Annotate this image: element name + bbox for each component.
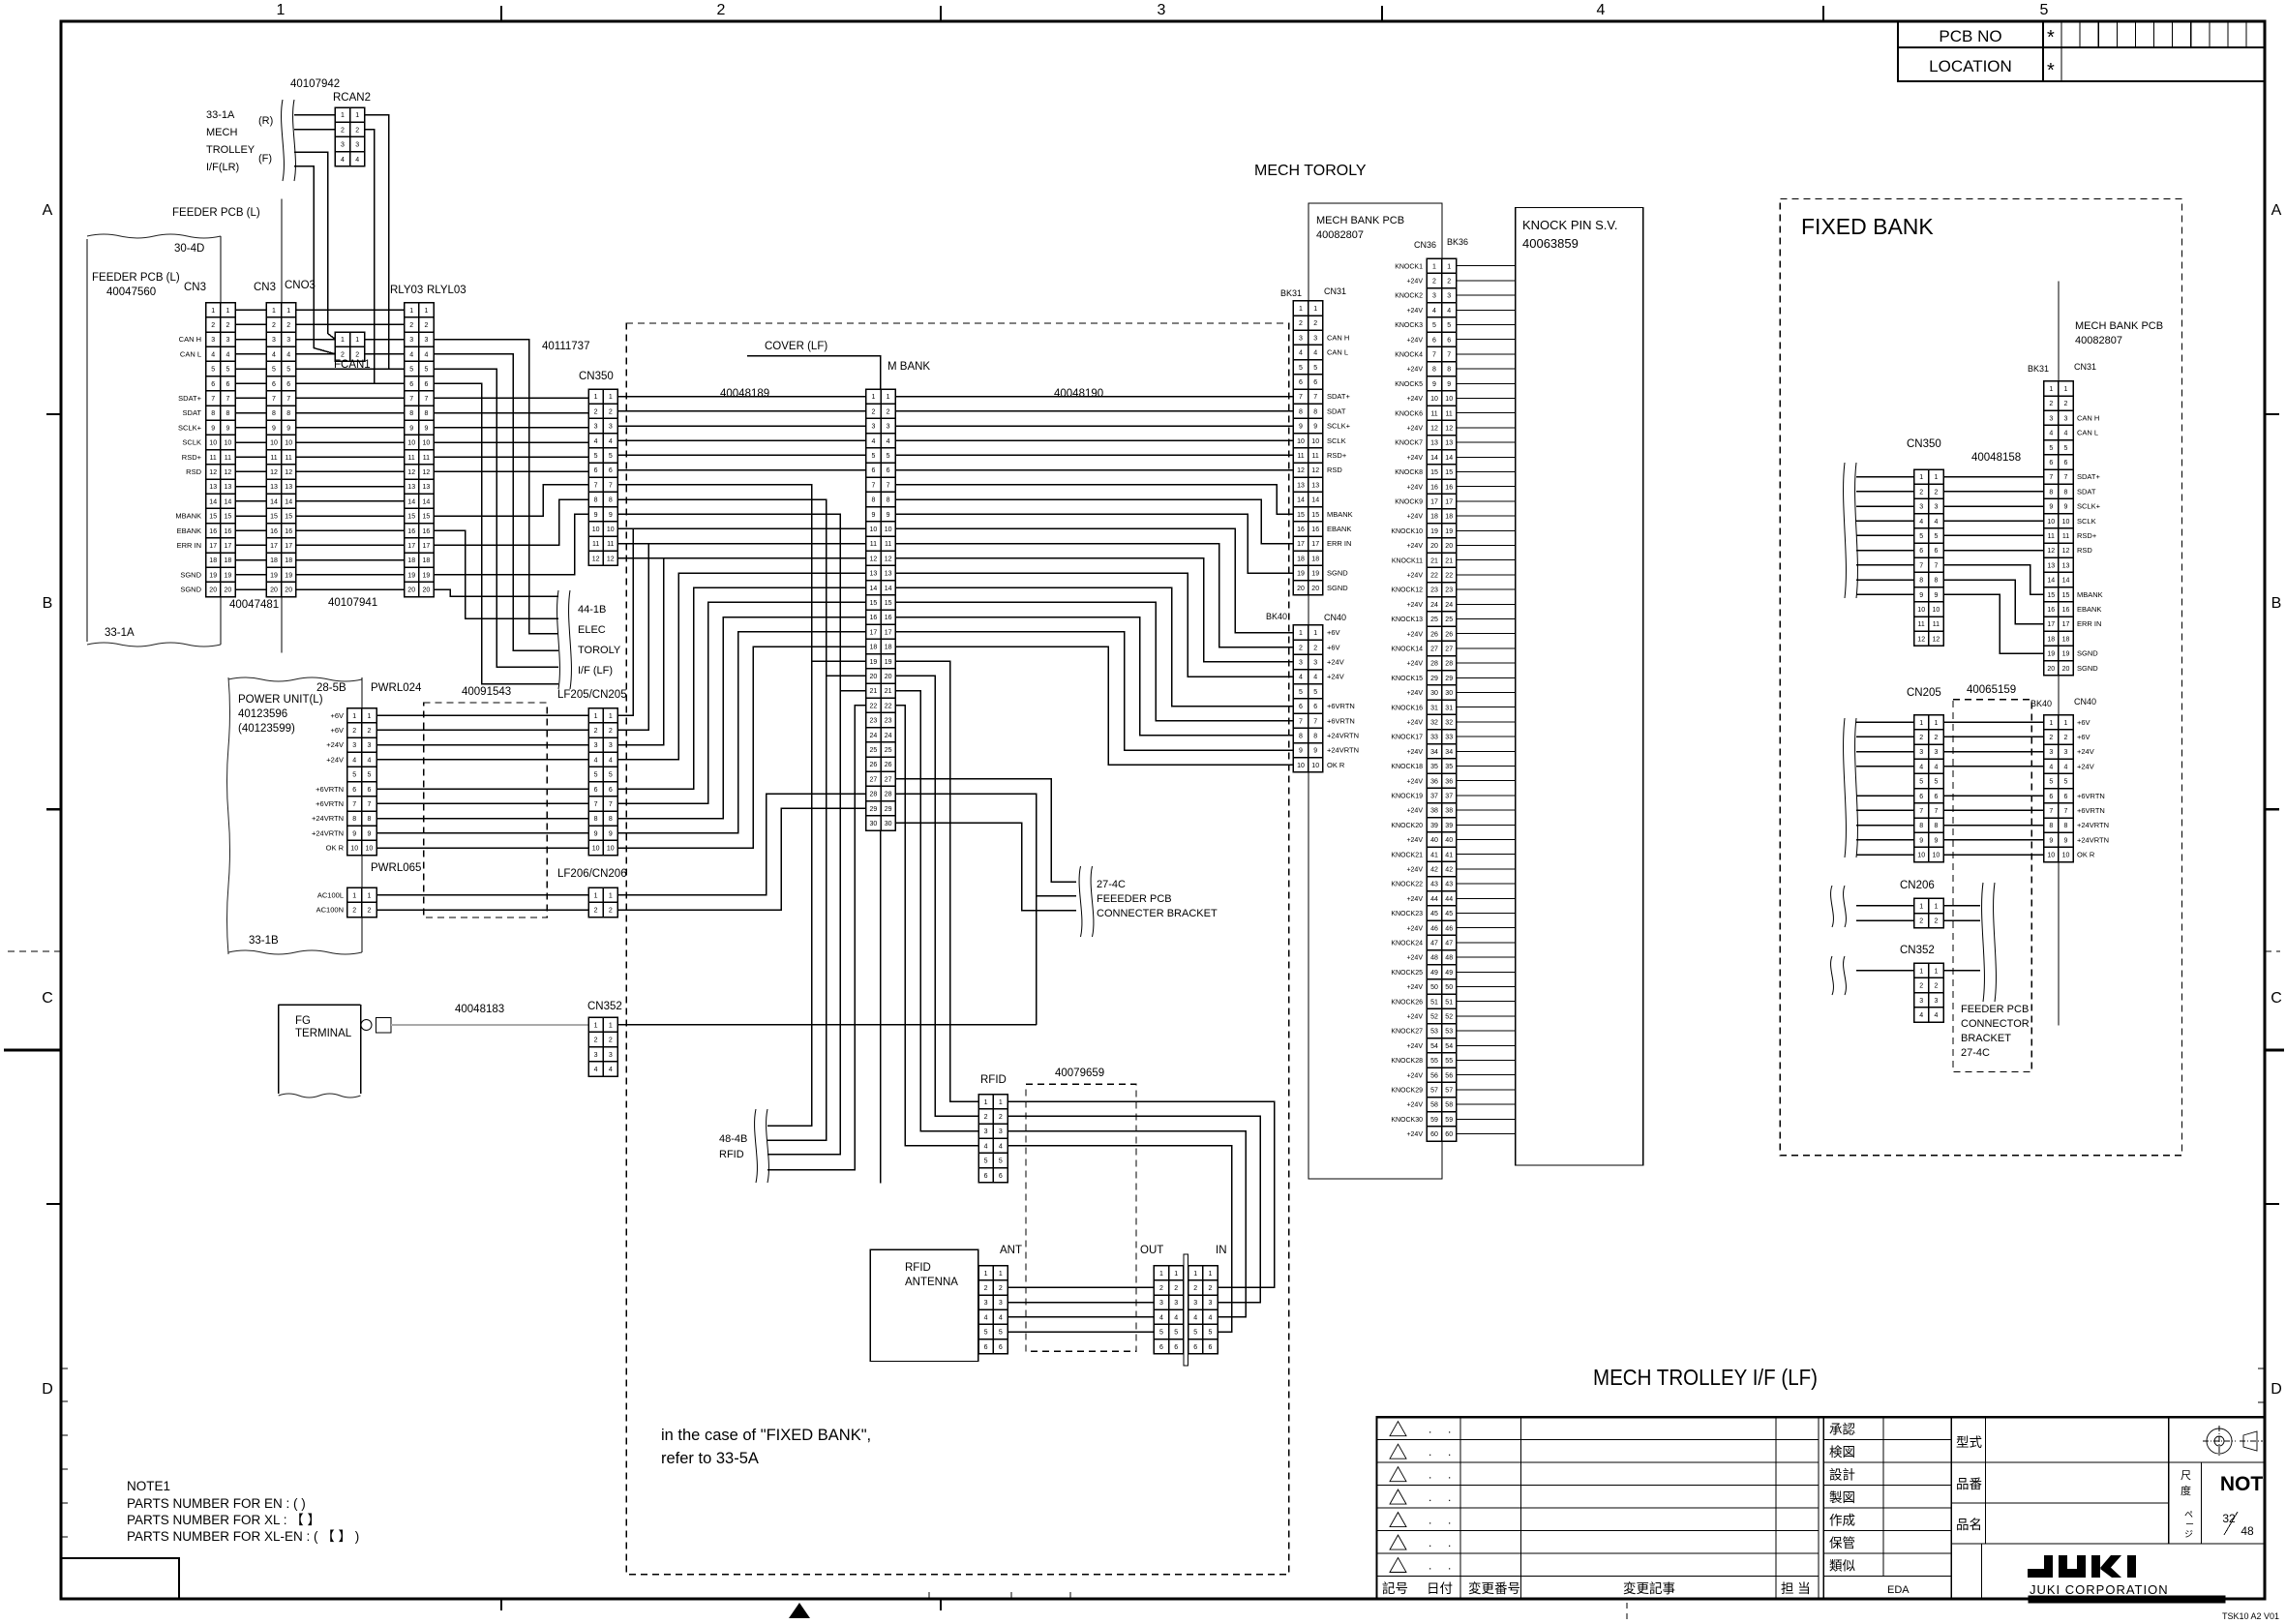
svg-text:RSD+: RSD+ [182, 453, 202, 462]
svg-text:45: 45 [1430, 911, 1438, 917]
svg-text:12: 12 [285, 469, 292, 476]
svg-text:BK40: BK40 [2030, 699, 2052, 708]
svg-text:33-1A: 33-1A [105, 627, 135, 639]
svg-text:14: 14 [285, 498, 292, 505]
svg-text:39: 39 [1445, 823, 1453, 829]
svg-text:ANT: ANT [1000, 1245, 1022, 1256]
svg-text:3: 3 [1934, 749, 1938, 756]
svg-text:+24V: +24V [1406, 514, 1423, 521]
svg-text:24: 24 [1445, 602, 1453, 609]
svg-text:8: 8 [1432, 367, 1436, 374]
svg-text:TOROLY: TOROLY [578, 645, 621, 656]
svg-text:8: 8 [211, 410, 215, 417]
wires BK36 to knock pin sv [1457, 265, 1516, 267]
svg-text:16: 16 [270, 528, 278, 535]
svg-text:KNOCK10: KNOCK10 [1391, 528, 1423, 535]
svg-text:6: 6 [1313, 704, 1317, 710]
svg-text:40063859: 40063859 [1522, 236, 1579, 251]
svg-text:14: 14 [270, 498, 278, 505]
svg-text:25: 25 [870, 747, 878, 754]
svg-text:6: 6 [367, 787, 371, 794]
svg-text:CN350: CN350 [1907, 438, 1941, 450]
svg-text:50: 50 [1430, 984, 1438, 991]
svg-text:7: 7 [352, 801, 356, 808]
svg-text:54: 54 [1430, 1043, 1438, 1050]
svg-text:1: 1 [352, 713, 356, 720]
svg-text:5: 5 [887, 453, 890, 460]
svg-text:9: 9 [1919, 837, 1923, 844]
svg-text:15: 15 [1297, 512, 1305, 519]
svg-text:20: 20 [2062, 666, 2070, 673]
wire M BANK 8 to BK31 17 [895, 499, 1293, 544]
svg-text:1: 1 [887, 394, 890, 401]
svg-text:4: 4 [1208, 1314, 1212, 1321]
wire fixed CN350 8 to BK31 17 [1943, 580, 2044, 624]
svg-text:1: 1 [226, 308, 229, 315]
svg-text:20: 20 [2047, 666, 2055, 673]
svg-text:40047481: 40047481 [229, 599, 279, 611]
svg-text:12: 12 [870, 556, 878, 562]
svg-text:33: 33 [1445, 735, 1453, 741]
svg-text:7: 7 [609, 801, 613, 808]
svg-text:7: 7 [211, 396, 215, 403]
svg-text:17: 17 [870, 629, 878, 636]
svg-text:5: 5 [424, 367, 428, 374]
svg-text:18: 18 [285, 557, 292, 564]
svg-text:10: 10 [607, 526, 615, 533]
svg-text:19: 19 [885, 659, 892, 666]
svg-text:23: 23 [870, 718, 878, 725]
svg-text:4: 4 [871, 438, 875, 445]
svg-text:6: 6 [1919, 548, 1923, 555]
svg-text:3: 3 [2049, 749, 2053, 756]
svg-text:SDAT+: SDAT+ [178, 394, 201, 403]
svg-text:4: 4 [1174, 1314, 1178, 1321]
svg-text:KNOCK18: KNOCK18 [1391, 764, 1423, 770]
svg-text:2: 2 [1919, 489, 1923, 496]
svg-text:48: 48 [1445, 955, 1453, 962]
svg-text:14: 14 [225, 498, 232, 505]
svg-text:1: 1 [272, 308, 276, 315]
svg-text:13: 13 [870, 571, 878, 578]
svg-text:2: 2 [984, 1285, 988, 1292]
svg-text:OUT: OUT [1140, 1245, 1163, 1256]
svg-text:+24VRTN: +24VRTN [1327, 732, 1359, 740]
svg-text:6: 6 [1447, 337, 1451, 344]
svg-text:9: 9 [409, 425, 413, 432]
svg-text:FEEDER PCB (L): FEEDER PCB (L) [92, 272, 180, 284]
cable break marks fixed CN350 [1844, 463, 1847, 598]
svg-text:30: 30 [1430, 690, 1438, 697]
svg-text:3: 3 [999, 1300, 1003, 1307]
svg-text:3: 3 [609, 1052, 613, 1059]
svg-text:SCLK: SCLK [2077, 517, 2096, 526]
svg-text:KNOCK16: KNOCK16 [1391, 705, 1423, 711]
svg-text:8: 8 [594, 497, 598, 504]
svg-text:12: 12 [607, 556, 615, 562]
svg-text:3: 3 [871, 424, 875, 431]
svg-text:+6V: +6V [2077, 718, 2090, 727]
svg-text:30-4D: 30-4D [174, 243, 204, 255]
svg-text:20: 20 [270, 587, 278, 594]
svg-text:4: 4 [424, 351, 428, 358]
svg-text:.: . [1429, 1423, 1431, 1436]
svg-text:28: 28 [1430, 661, 1438, 668]
svg-text:19: 19 [1311, 571, 1319, 578]
svg-text:POWER UNIT(L): POWER UNIT(L) [238, 694, 323, 706]
svg-text:40107942: 40107942 [290, 78, 340, 90]
svg-text:+24V: +24V [1406, 1072, 1423, 1079]
svg-text:60: 60 [1445, 1131, 1453, 1138]
svg-text:48: 48 [1430, 955, 1438, 962]
svg-text:15: 15 [2047, 592, 2055, 599]
svg-text:CN352: CN352 [1900, 945, 1935, 956]
svg-text:2: 2 [609, 1038, 613, 1044]
wires fixed CN350 left stubs [1856, 476, 1914, 478]
svg-text:SDAT: SDAT [2077, 487, 2096, 496]
svg-text:+24V: +24V [1406, 573, 1423, 580]
svg-text:SCLK: SCLK [182, 438, 201, 447]
svg-text:.: . [1448, 1536, 1451, 1549]
svg-text:33-1B: 33-1B [249, 935, 279, 947]
svg-text:12: 12 [2062, 548, 2070, 555]
svg-text:+24V: +24V [1406, 984, 1423, 991]
PCB NO / LOCATION table [1898, 21, 2265, 81]
svg-text:16: 16 [407, 528, 415, 535]
svg-text:1: 1 [341, 112, 345, 119]
svg-text:3: 3 [1299, 660, 1303, 667]
svg-text:11: 11 [1430, 410, 1437, 417]
svg-text:28: 28 [885, 792, 892, 798]
fg lug symbol [361, 1020, 372, 1031]
svg-text:17: 17 [1445, 499, 1453, 506]
svg-text:+6V: +6V [330, 726, 344, 735]
svg-text:11: 11 [1312, 453, 1319, 460]
svg-text:1: 1 [594, 713, 598, 720]
wire CN352 riser continuation [1036, 896, 1038, 1025]
svg-text:+24VRTN: +24VRTN [312, 828, 344, 837]
fixed mech bank pcb line [2058, 281, 2060, 1025]
svg-text:14: 14 [1297, 497, 1305, 504]
wire F cable to FCAN1 pin1 [294, 152, 335, 339]
svg-text:10: 10 [1933, 607, 1940, 614]
wires M BANK 27,28,30 to feeder pcb bracket 27-4C [895, 779, 1076, 882]
dashed box COVER (LF) [626, 323, 1288, 1575]
svg-text:12: 12 [209, 469, 217, 476]
svg-text:CN205: CN205 [1907, 687, 1941, 699]
svg-text:13: 13 [407, 484, 415, 491]
svg-text:9: 9 [1934, 592, 1938, 599]
svg-text:5: 5 [1919, 779, 1923, 786]
svg-text:2: 2 [1919, 918, 1923, 925]
svg-text:1: 1 [367, 713, 371, 720]
connector RLY03/RLYL03 [405, 303, 434, 597]
svg-text:14: 14 [2047, 578, 2055, 585]
connector CN3/CNO3 pair [266, 303, 295, 597]
svg-text:13: 13 [885, 571, 892, 578]
svg-text:57: 57 [1445, 1088, 1453, 1095]
svg-text:57: 57 [1430, 1088, 1438, 1095]
connector PWRL065 [347, 887, 376, 917]
svg-text:(F): (F) [258, 153, 272, 165]
svg-text:11: 11 [270, 455, 277, 462]
svg-text:12: 12 [1917, 636, 1925, 643]
svg-text:7: 7 [409, 396, 413, 403]
svg-text:4: 4 [887, 438, 890, 445]
svg-text:+24VRTN: +24VRTN [2077, 835, 2109, 844]
svg-text:2: 2 [1919, 735, 1923, 741]
svg-text:KNOCK28: KNOCK28 [1391, 1058, 1423, 1065]
svg-text:19: 19 [423, 572, 431, 579]
svg-text:1: 1 [1432, 263, 1436, 270]
svg-text:5: 5 [2040, 2, 2049, 18]
svg-text:3: 3 [1934, 504, 1938, 511]
svg-text:18: 18 [2047, 636, 2055, 643]
svg-text:NOT: NOT [2220, 1473, 2264, 1495]
svg-text:CAN L: CAN L [1327, 348, 1348, 357]
svg-text:10: 10 [1917, 853, 1925, 859]
svg-text:1: 1 [1208, 1271, 1212, 1278]
svg-text:42: 42 [1445, 867, 1453, 874]
svg-text:19: 19 [270, 572, 278, 579]
svg-text:3: 3 [594, 424, 598, 431]
svg-text:TROLLEY: TROLLEY [206, 144, 256, 156]
svg-text:2: 2 [2049, 735, 2053, 741]
svg-text:1: 1 [1934, 474, 1938, 481]
svg-text:9: 9 [609, 830, 613, 837]
svg-text:8: 8 [1299, 408, 1303, 415]
svg-text:4: 4 [1313, 350, 1317, 357]
svg-text:3: 3 [1208, 1300, 1212, 1307]
svg-text:+24V: +24V [1406, 543, 1423, 550]
svg-text:4: 4 [226, 351, 229, 358]
svg-text:9: 9 [594, 512, 598, 519]
svg-text:+24V: +24V [326, 755, 344, 764]
svg-text:37: 37 [1445, 794, 1453, 800]
svg-text:3: 3 [367, 742, 371, 749]
svg-text:19: 19 [1445, 528, 1453, 535]
svg-text:検図: 検図 [1829, 1445, 1855, 1459]
cable break marks fixed CN352 left [1844, 956, 1847, 995]
svg-text:5: 5 [226, 367, 229, 374]
svg-text:+24V: +24V [1406, 396, 1423, 403]
svg-text:2: 2 [367, 728, 371, 735]
svg-text:LF205/CN205: LF205/CN205 [557, 689, 627, 701]
svg-text:+24V: +24V [1406, 749, 1423, 756]
svg-text:4: 4 [594, 757, 598, 764]
svg-text:12: 12 [1311, 467, 1319, 474]
svg-text:SDAT: SDAT [183, 408, 202, 417]
svg-text:1: 1 [1313, 630, 1317, 637]
svg-text:15: 15 [1445, 469, 1453, 476]
svg-text:10: 10 [423, 440, 431, 447]
svg-text:8: 8 [2064, 489, 2068, 496]
svg-text:47: 47 [1430, 941, 1438, 947]
wires M BANK 1-6 to BK31 7-12 [895, 396, 1293, 398]
svg-text:RFID: RFID [980, 1074, 1007, 1086]
svg-text:2: 2 [1934, 918, 1938, 925]
svg-text:18: 18 [1297, 556, 1305, 562]
svg-text:12: 12 [225, 469, 232, 476]
svg-text:18: 18 [1311, 556, 1319, 562]
svg-text:17: 17 [285, 543, 292, 550]
svg-text:CN31: CN31 [2074, 362, 2096, 372]
svg-text:3: 3 [609, 424, 613, 431]
svg-text:.: . [1448, 1468, 1451, 1482]
svg-text:41: 41 [1430, 852, 1438, 858]
wire RCAN2 pin2 left [294, 129, 335, 131]
svg-text:5: 5 [1313, 365, 1317, 372]
wire M BANK 9 to BK31 19 [895, 514, 1293, 573]
svg-text:A: A [2271, 202, 2282, 219]
svg-text:FEEEDER PCB: FEEEDER PCB [1097, 893, 1172, 905]
svg-text:KNOCK9: KNOCK9 [1395, 499, 1423, 506]
svg-text:40065159: 40065159 [1967, 684, 2016, 696]
svg-text:SGND: SGND [1327, 584, 1348, 592]
svg-text:2: 2 [999, 1285, 1003, 1292]
svg-text:8: 8 [594, 816, 598, 823]
svg-text:21: 21 [1445, 557, 1453, 564]
svg-text:2: 2 [1934, 489, 1938, 496]
svg-text:40048158: 40048158 [1971, 452, 2021, 464]
svg-text:1: 1 [999, 1099, 1003, 1106]
svg-text:in the case of "FIXED BANK",: in the case of "FIXED BANK", [661, 1427, 871, 1444]
svg-text:14: 14 [2062, 578, 2070, 585]
svg-text:43: 43 [1445, 882, 1453, 888]
svg-text:52: 52 [1445, 1014, 1453, 1021]
svg-text:10: 10 [1430, 396, 1438, 403]
svg-text:8: 8 [424, 410, 428, 417]
svg-text:品番: 品番 [1956, 1477, 1983, 1491]
svg-text:16: 16 [423, 528, 431, 535]
svg-text:16: 16 [885, 615, 892, 621]
svg-text:+24V: +24V [1406, 1014, 1423, 1021]
m bank divider line [880, 830, 882, 1183]
svg-text:3: 3 [352, 742, 356, 749]
svg-text:3: 3 [1934, 998, 1938, 1005]
svg-text:16: 16 [1430, 484, 1438, 491]
svg-text:+24V: +24V [1406, 955, 1423, 962]
svg-text:40: 40 [1430, 837, 1438, 844]
svg-text:2: 2 [211, 322, 215, 329]
svg-text:KNOCK17: KNOCK17 [1391, 735, 1423, 741]
svg-text:14: 14 [407, 498, 415, 505]
wires fixed CN350 1-6 to BK31 7-12 [1943, 476, 2044, 478]
svg-text:22: 22 [1445, 573, 1453, 580]
connector FCAN1 [335, 332, 364, 361]
svg-text:SCLK: SCLK [1327, 436, 1346, 445]
svg-text:ジ: ジ [2184, 1529, 2193, 1539]
svg-text:2: 2 [1447, 279, 1451, 286]
svg-text:16: 16 [870, 615, 878, 621]
connector fixed BK31/CN31 [2044, 381, 2073, 676]
svg-text:10: 10 [607, 846, 615, 853]
svg-text:EDA: EDA [1887, 1584, 1910, 1596]
svg-text:29: 29 [1445, 676, 1453, 682]
svg-text:21: 21 [1430, 557, 1438, 564]
svg-text:.: . [1448, 1514, 1451, 1527]
svg-text:12: 12 [270, 469, 278, 476]
svg-text:4: 4 [609, 1067, 613, 1073]
wires RLY03 20,16,3,4,5,6 to ELEC TOROLY 44-1B [434, 589, 558, 596]
connector BK31/CN31 [1293, 301, 1322, 595]
svg-text:8: 8 [1934, 578, 1938, 585]
svg-text:KNOCK23: KNOCK23 [1391, 911, 1423, 917]
svg-text:KNOCK24: KNOCK24 [1391, 941, 1423, 947]
svg-text:+6VRTN: +6VRTN [1327, 716, 1355, 725]
svg-text:48-4B: 48-4B [719, 1133, 747, 1145]
wire fixed CN350 9 to BK31 19 [1943, 594, 2044, 653]
svg-text:4: 4 [355, 157, 359, 164]
svg-text:5: 5 [609, 772, 613, 779]
svg-text:10: 10 [1917, 607, 1925, 614]
svg-text:.: . [1429, 1468, 1431, 1482]
cable break marks RCAN2 [282, 100, 285, 181]
wire CN350 8 to M BANK 20 and RFID bundle [617, 499, 826, 1140]
svg-text:5: 5 [999, 1330, 1003, 1337]
svg-text:FIXED BANK: FIXED BANK [1801, 214, 1934, 239]
svg-text:34: 34 [1430, 749, 1438, 756]
svg-text:7: 7 [2049, 808, 2053, 815]
wires RLY03 7-12 to CN350 1-6 [434, 397, 588, 399]
svg-text:38: 38 [1430, 808, 1438, 815]
svg-text:+24V: +24V [1327, 658, 1344, 667]
svg-text:4: 4 [1193, 1314, 1197, 1321]
svg-text:5: 5 [1934, 779, 1938, 786]
svg-text:10: 10 [1297, 438, 1305, 445]
svg-text:32: 32 [1445, 720, 1453, 727]
svg-text:4: 4 [1934, 519, 1938, 526]
svg-text:5: 5 [1447, 322, 1451, 329]
svg-text:18: 18 [423, 557, 431, 564]
svg-text:2: 2 [1432, 279, 1436, 286]
svg-text:1: 1 [2064, 720, 2068, 727]
svg-text:1: 1 [277, 2, 286, 18]
svg-text:4: 4 [1299, 675, 1303, 681]
svg-text:6: 6 [2049, 460, 2053, 466]
svg-text:2: 2 [286, 322, 290, 329]
svg-text:7: 7 [871, 482, 875, 489]
svg-text:SGND: SGND [2077, 649, 2098, 658]
wire fixed CN350 7 to BK31 15 [1943, 565, 2044, 594]
svg-text:24: 24 [870, 733, 878, 739]
svg-text:1: 1 [609, 1022, 613, 1029]
svg-text:6: 6 [1159, 1344, 1163, 1351]
svg-text:.: . [1448, 1559, 1451, 1573]
svg-text:18: 18 [225, 557, 232, 564]
svg-text:29: 29 [885, 806, 892, 813]
svg-text:2: 2 [367, 908, 371, 915]
svg-text:10: 10 [2047, 853, 2055, 859]
svg-text:20: 20 [285, 587, 292, 594]
wire RLY03 17 ERRIN to CN350 8 [434, 499, 588, 545]
svg-text:21: 21 [885, 688, 892, 695]
svg-text:15: 15 [285, 514, 292, 521]
svg-text:13: 13 [1445, 440, 1453, 447]
svg-text:IN: IN [1216, 1245, 1227, 1256]
wires M BANK 10-18 to BK40 1-10 [895, 528, 1293, 632]
svg-text:16: 16 [225, 528, 232, 535]
svg-text:9: 9 [211, 425, 215, 432]
svg-text:2: 2 [1159, 1285, 1163, 1292]
svg-text:PARTS NUMBER FOR XL : 【 】: PARTS NUMBER FOR XL : 【 】 [127, 1513, 320, 1527]
svg-text:53: 53 [1445, 1029, 1453, 1036]
svg-text:16: 16 [1311, 526, 1319, 533]
svg-text:40107941: 40107941 [328, 597, 377, 609]
svg-text:6: 6 [1299, 379, 1303, 386]
svg-text:50: 50 [1445, 984, 1453, 991]
svg-text:CAN L: CAN L [180, 349, 201, 358]
